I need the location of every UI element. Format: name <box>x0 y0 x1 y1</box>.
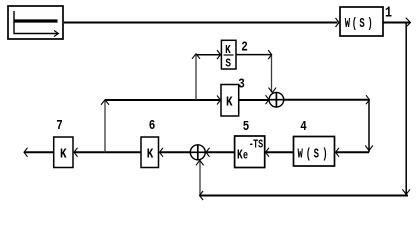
svg-text:4: 4 <box>300 119 307 135</box>
svg-text:3: 3 <box>238 76 245 92</box>
svg-text:(: ( <box>352 16 357 31</box>
svg-text:K: K <box>226 94 233 110</box>
svg-text:S: S <box>314 147 319 162</box>
svg-text:): ) <box>367 16 372 31</box>
svg-text:K: K <box>60 146 67 162</box>
svg-text:): ) <box>322 147 327 162</box>
svg-text:6: 6 <box>149 118 156 134</box>
svg-text:W: W <box>345 16 350 31</box>
svg-text:W: W <box>297 147 302 162</box>
svg-text:S: S <box>225 58 231 71</box>
svg-text:(: ( <box>306 147 311 162</box>
svg-text:1: 1 <box>385 5 392 22</box>
svg-text:e: e <box>243 149 248 163</box>
svg-text:K: K <box>237 148 243 163</box>
svg-text:2: 2 <box>241 39 248 55</box>
svg-text:7: 7 <box>56 118 63 134</box>
svg-text:S: S <box>359 16 364 31</box>
svg-text:5: 5 <box>243 119 250 135</box>
svg-text:K: K <box>147 146 154 162</box>
svg-text:S: S <box>258 138 263 152</box>
